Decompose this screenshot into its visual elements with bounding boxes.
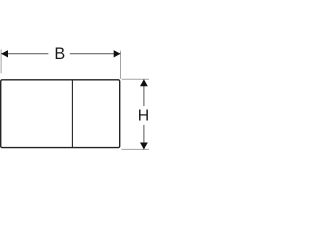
svg-text:B: B <box>54 45 65 63</box>
svg-text:H: H <box>138 108 149 125</box>
